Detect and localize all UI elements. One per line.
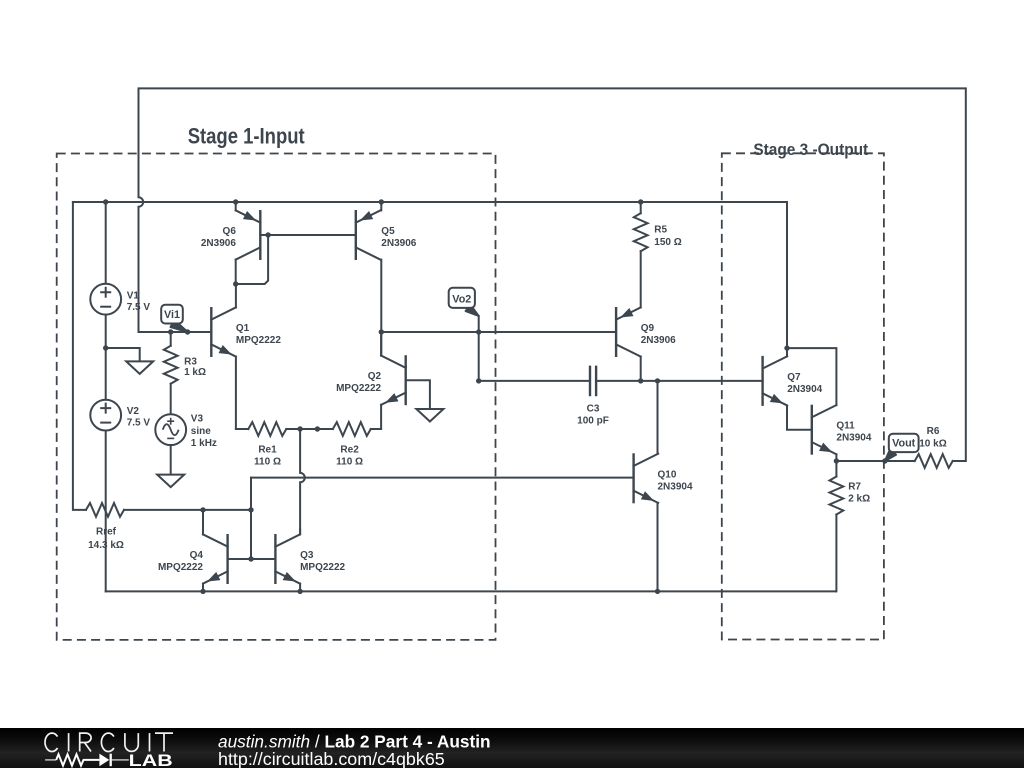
junction base tap — [248, 556, 253, 561]
svg-text:R31 kΩ: R31 kΩ — [184, 356, 206, 378]
junction Q6 collector-base-Q1 — [233, 281, 238, 286]
wire R6 left lead — [902, 460, 915, 462]
svg-text:R610 kΩ: R610 kΩ — [919, 426, 946, 450]
wire Q4-Q3 base — [228, 558, 276, 560]
svg-text:C3100 pF: C3100 pF — [577, 404, 609, 427]
junction C3 left — [476, 378, 481, 383]
wire bottom rail — [106, 590, 836, 592]
flag Vout — [885, 434, 919, 461]
junction Vo2 node — [379, 329, 384, 334]
capacitor C3 — [590, 366, 596, 397]
CircuitLab logo squiggle: resistor + diode — [45, 759, 129, 761]
svg-text:V3sine1 kHz: V3sine1 kHz — [191, 414, 217, 449]
svg-text:Q92N3906: Q92N3906 — [641, 323, 676, 346]
wire V3 to gnd — [170, 445, 172, 475]
svg-text:R72 kΩ: R72 kΩ — [848, 482, 870, 505]
junction rail-Q5 — [379, 199, 384, 204]
wire Q9 collector stub — [640, 357, 642, 381]
svg-text:Q1MPQ2222: Q1MPQ2222 — [236, 323, 281, 346]
junction rail-R5 — [638, 199, 643, 204]
wire Re1 left lead — [236, 428, 248, 430]
junction Rref end — [248, 507, 253, 512]
wire Re1 right lead — [286, 428, 300, 430]
wire Q7 emitter to Q11 base — [787, 406, 812, 430]
junction Vo2 tap — [476, 329, 481, 334]
transistor Q3 MPQ2222 — [275, 534, 300, 584]
voltage source V1 — [90, 284, 121, 315]
svg-text:Re1110 Ω: Re1110 Ω — [254, 445, 281, 468]
resistor R3 — [164, 346, 178, 384]
transistor Q4 MPQ2222 — [203, 534, 228, 584]
junction Q10 collector — [655, 378, 660, 383]
wire C3 left — [479, 380, 589, 382]
svg-text:Stage 1-Input: Stage 1-Input — [188, 124, 306, 149]
wire Re junction — [300, 428, 333, 430]
wire Q6 emitter stub — [235, 202, 237, 210]
transistor Q6 2N3906 — [236, 210, 261, 260]
wire Q5 collector down — [380, 260, 382, 356]
resistor Rref — [86, 503, 124, 517]
svg-text:Vout: Vout — [892, 438, 916, 450]
ground below V3 — [157, 475, 184, 488]
wire Q2 emitter to Re2 — [380, 405, 382, 429]
wire V2 bottom — [105, 431, 107, 592]
wire Vout rail — [836, 460, 901, 462]
wire Q3 collector vertical with hop — [300, 429, 305, 534]
voltage source V3 sine — [155, 414, 186, 445]
junction bottom-Q4 — [200, 589, 205, 594]
wire top rail right drop to Q7 — [786, 202, 788, 348]
wire Q1 collector up — [235, 284, 237, 307]
svg-text:Re2110 Ω: Re2110 Ω — [336, 445, 363, 468]
junction Q6 base tap — [265, 232, 270, 237]
wire feedback vertical with hop — [139, 88, 144, 332]
wire Q10 emitter down — [657, 503, 659, 592]
wire Q6 base-collector tie — [236, 235, 268, 284]
junction Q4 collector tap — [200, 507, 205, 512]
resistor Re1 — [248, 422, 286, 436]
wire Q6 collector stub — [235, 260, 237, 284]
wire C3 right — [597, 380, 763, 382]
wire left supply rail — [73, 202, 86, 510]
transistor Q11 2N3904 — [812, 405, 837, 455]
svg-text:Q62N3906: Q62N3906 — [201, 226, 236, 249]
wire Q5 emitter stub — [380, 202, 382, 210]
wire R3 top lead — [170, 332, 172, 346]
wire Q6 base — [260, 234, 356, 236]
junction rail-V1 — [103, 199, 108, 204]
wire feedback top — [139, 88, 966, 461]
node Stage 1-Input boundary box — [57, 154, 496, 640]
resistor R6 — [915, 454, 953, 468]
wire Q2 base to gnd — [406, 380, 430, 409]
wire Q2 collector up — [380, 332, 382, 356]
svg-text:Q112N3904: Q112N3904 — [836, 421, 871, 444]
transistor Q2 MPQ2222 — [381, 355, 406, 405]
svg-text:V27.5 V: V27.5 V — [127, 406, 151, 429]
svg-text:LAB: LAB — [129, 751, 173, 768]
junction Re1-Re2 right — [315, 426, 320, 431]
transistor Q10 2N3904 — [634, 453, 659, 503]
wire gnd tap — [106, 348, 140, 361]
wire Q4 collector stub — [202, 510, 204, 535]
junction Vout node — [834, 458, 839, 463]
wire mirror tap vertical — [250, 478, 252, 559]
svg-text:Q3MPQ2222: Q3MPQ2222 — [300, 550, 345, 573]
junction R3 top — [168, 329, 173, 334]
wire Q7 collector stub — [786, 348, 788, 356]
wire mirror to Q10 base — [251, 477, 634, 479]
resistor R7 — [830, 477, 844, 515]
junction Q7 collector — [784, 345, 789, 350]
resistor Re2 — [333, 422, 371, 436]
wire Q3 collector stub — [299, 529, 301, 534]
wire top rail — [73, 201, 787, 203]
wire Vo2 to Q9 base — [381, 331, 616, 333]
junction Vi1 tap — [185, 329, 190, 334]
junction Q9 collector — [638, 378, 643, 383]
junction rail-Q6 — [233, 199, 238, 204]
node V1 minus junction — [103, 345, 108, 350]
svg-text:Q102N3904: Q102N3904 — [658, 469, 693, 492]
wire feedback to Q1 base — [139, 331, 212, 333]
node Stage 3-Output boundary box — [722, 153, 884, 639]
wire R7 bottom lead — [835, 515, 837, 592]
svg-text:Q4MPQ2222: Q4MPQ2222 — [158, 550, 203, 573]
wire Q10 collector up — [657, 381, 659, 454]
svg-text:Vo2: Vo2 — [452, 293, 471, 305]
transistor Q7 2N3904 — [763, 356, 788, 406]
voltage source V2 — [90, 400, 121, 431]
wire Rref right lead — [124, 509, 251, 511]
transistor Q9 2N3906 — [616, 307, 641, 357]
wire Vo2 tap down — [478, 316, 480, 381]
wire Re2 right lead — [371, 428, 381, 430]
ground at Q2 base — [416, 409, 443, 422]
wire Q1 emitter down — [235, 357, 237, 429]
junction bottom-Q3 — [297, 589, 302, 594]
ground near V1 — [126, 361, 153, 374]
svg-text:Q72N3904: Q72N3904 — [787, 372, 822, 395]
wire V1 bottom — [105, 315, 107, 400]
wire R5 to Q9 — [640, 251, 642, 307]
svg-text:http://circuitlab.com/c4qbk65: http://circuitlab.com/c4qbk65 — [218, 749, 445, 768]
svg-text:Vi1: Vi1 — [164, 309, 180, 321]
wire R3 to V3 — [170, 384, 172, 415]
svg-text:Stage 3 -Output: Stage 3 -Output — [753, 140, 868, 159]
wire Q4 emitter stub — [202, 584, 204, 592]
svg-text:R5150 Ω: R5150 Ω — [654, 225, 681, 248]
svg-text:Q2MPQ2222: Q2MPQ2222 — [336, 371, 381, 394]
transistor Q1 MPQ2222 — [211, 307, 236, 357]
junction Vout tap — [882, 458, 887, 463]
wire Q11 emitter stub — [835, 454, 837, 461]
flag Vo2 — [449, 288, 479, 316]
wire R5 top lead — [640, 202, 642, 213]
svg-text:Q52N3906: Q52N3906 — [381, 226, 416, 249]
CircuitLab logo CIRCUIT — [45, 733, 173, 751]
wire Q7 collector to Q11 collector — [787, 348, 836, 405]
resistor R5 — [634, 213, 648, 251]
junction Re1-Re2 left — [297, 426, 302, 431]
flag Vi1 — [161, 305, 187, 332]
svg-text:V17.5 V: V17.5 V — [127, 290, 151, 313]
transistor Q5 2N3906 — [356, 210, 381, 260]
wire V1 top — [105, 202, 107, 284]
wire Q3 emitter stub — [299, 584, 301, 592]
wire R7 top lead — [835, 461, 837, 477]
junction bottom-Q10 — [655, 589, 660, 594]
